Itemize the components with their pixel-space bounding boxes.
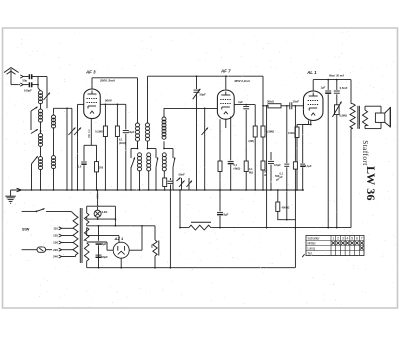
svg-text:100pF: 100pF bbox=[24, 89, 32, 93]
svg-text:0,5mF: 0,5mF bbox=[340, 86, 348, 90]
svg-text:8μF: 8μF bbox=[224, 213, 229, 217]
wire L2 bottom to bus bbox=[53, 168, 55, 191]
svg-text:500V: 500V bbox=[105, 99, 113, 103]
wire AVC column with cap bbox=[284, 105, 289, 221]
label 8uF b bbox=[224, 213, 229, 217]
wire AL1 cathode bbox=[297, 121, 312, 164]
label 0,1M bbox=[95, 130, 103, 134]
label 8uF a bbox=[102, 242, 107, 246]
svg-text:6: 6 bbox=[356, 236, 358, 240]
svg-text:50nF: 50nF bbox=[179, 173, 186, 177]
svg-text:110: 110 bbox=[53, 227, 58, 231]
svg-text:10μF: 10μF bbox=[128, 130, 134, 134]
switch S1b arrow bbox=[31, 156, 38, 191]
capacitor 1uF output top bbox=[325, 80, 331, 229]
svg-text:220: 220 bbox=[53, 248, 58, 252]
capacitor 100pF antenna series bbox=[24, 82, 38, 92]
svg-text:AF 3: AF 3 bbox=[85, 70, 96, 75]
dial lamp bbox=[94, 189, 101, 219]
band switch S1a bbox=[31, 107, 41, 134]
capacitor 8uF first bbox=[96, 226, 102, 269]
label 200V 5mA bbox=[99, 79, 115, 83]
svg-text:(2M): (2M) bbox=[249, 139, 254, 143]
svg-text:50p: 50p bbox=[23, 79, 28, 83]
mains switch bbox=[22, 208, 76, 215]
label 4000ohm bbox=[282, 205, 290, 209]
svg-text:0,1: 0,1 bbox=[280, 172, 284, 176]
svg-text:150Ω: 150Ω bbox=[288, 131, 294, 135]
coil osc L3 bbox=[162, 108, 166, 139]
label 0,1uF avc bbox=[280, 172, 284, 180]
resistor 0,1M AF7 bbox=[244, 161, 248, 191]
svg-text:Mittel: Mittel bbox=[308, 241, 316, 245]
svg-text:200: 200 bbox=[99, 167, 104, 170]
label 0,3A bbox=[96, 194, 100, 200]
resistor AF7 cathode bbox=[218, 161, 222, 191]
svg-text:1μF: 1μF bbox=[238, 100, 243, 104]
table pointer tick bbox=[302, 254, 304, 257]
transformer lamp winding bbox=[84, 228, 89, 241]
svg-text:StW: StW bbox=[22, 228, 30, 232]
wire antenna node bbox=[37, 77, 47, 96]
trimmer pair bbox=[179, 178, 192, 190]
label 30k bbox=[267, 99, 275, 103]
switch table bbox=[306, 236, 364, 256]
speaker bbox=[365, 106, 390, 128]
coil IF1 secondary lower bbox=[147, 153, 151, 191]
capacitor padder bbox=[168, 178, 174, 190]
label 6,3V bbox=[102, 210, 108, 214]
svg-text:7kΩ: 7kΩ bbox=[150, 244, 154, 249]
coil L1 antenna upper bbox=[39, 91, 43, 104]
svg-text:0,5μF: 0,5μF bbox=[274, 163, 281, 167]
wire HT drop right bbox=[262, 76, 264, 106]
label 0,2M bbox=[249, 139, 254, 143]
svg-text:AL 1: AL 1 bbox=[306, 70, 317, 75]
output transformer core bbox=[358, 106, 360, 129]
svg-text:0,1MΩ: 0,1MΩ bbox=[95, 130, 103, 134]
wire AZ1 bottom lead bbox=[120, 258, 122, 268]
label StW bbox=[22, 228, 30, 232]
svg-text:0,1: 0,1 bbox=[234, 163, 238, 167]
wire AF3 anode to rail bbox=[92, 78, 138, 89]
wire L1 bottom to bus bbox=[40, 169, 42, 191]
svg-text:50pF: 50pF bbox=[200, 93, 207, 97]
svg-text:Schalter: Schalter bbox=[308, 236, 321, 240]
svg-text:10nF: 10nF bbox=[293, 99, 300, 103]
coil L1b bbox=[39, 133, 43, 146]
switch S2b arrow bbox=[147, 148, 159, 191]
label 4k bbox=[119, 138, 126, 146]
wire heater top bbox=[87, 205, 117, 225]
svg-text:LW 36: LW 36 bbox=[364, 166, 378, 201]
label Staffort bbox=[361, 140, 369, 165]
svg-text:3: 3 bbox=[342, 236, 344, 240]
label 0,5M grid leak bbox=[87, 130, 91, 138]
svg-text:1,0: 1,0 bbox=[78, 166, 82, 169]
coil L1 lower bbox=[39, 109, 43, 122]
wire AZ1 anode to HV winding bbox=[87, 242, 114, 250]
resistor AL1 grid leak upper bbox=[261, 106, 265, 161]
wire L1b gap bbox=[40, 146, 42, 157]
label 50pF bbox=[200, 93, 207, 97]
label 50ohm bbox=[264, 171, 267, 178]
wire L1 to L1b bbox=[40, 121, 42, 133]
wire AL1 anode bbox=[312, 80, 314, 91]
wire rail0 drop to IF coil A bbox=[137, 78, 139, 123]
label 150ohm bbox=[288, 131, 294, 135]
wire screen node bbox=[100, 103, 126, 105]
tuning gang C1 arrow bbox=[68, 108, 75, 191]
capacitor 8uF second bbox=[96, 255, 109, 259]
coil L1c bbox=[39, 157, 43, 170]
coil IF1 secondary bbox=[146, 123, 150, 153]
resistor AL1 cathode bbox=[295, 127, 299, 191]
switch S2c arrow bbox=[163, 148, 175, 191]
svg-text:4: 4 bbox=[347, 236, 349, 240]
wire AF7 screen node bbox=[234, 104, 255, 106]
capacitor AL1 cathode bypass bbox=[300, 164, 305, 191]
resistor 4000ohm bbox=[276, 189, 296, 220]
wire AF7 cathode drop bbox=[219, 119, 221, 161]
label 0,5uF bbox=[340, 86, 348, 90]
svg-text:6,3Ω: 6,3Ω bbox=[102, 210, 108, 214]
svg-text:125: 125 bbox=[53, 234, 58, 238]
label 50nF bbox=[177, 173, 186, 181]
svg-text:AF 7: AF 7 bbox=[220, 68, 231, 73]
capacitor coupling 0,5uF bbox=[268, 152, 274, 191]
wire bottom return bbox=[87, 262, 296, 268]
svg-text:0,5 MΩ: 0,5 MΩ bbox=[87, 130, 91, 138]
antenna socket arrows bbox=[20, 75, 28, 86]
label 1uF AF7 bbox=[238, 100, 243, 104]
resistor cathode AF3 1k bbox=[95, 145, 104, 191]
label max current bbox=[329, 73, 344, 77]
svg-text:1μF: 1μF bbox=[321, 85, 326, 89]
label 0,1M lower bbox=[249, 168, 253, 175]
heater loop wires bbox=[87, 224, 155, 250]
tube AZ1 bbox=[113, 236, 129, 258]
wire L2 mid bbox=[53, 127, 55, 155]
label 10nF AL1 bbox=[293, 99, 300, 103]
main HT rail bbox=[150, 75, 263, 77]
potentiometer tone bbox=[332, 94, 341, 228]
output transformer secondary bbox=[362, 106, 367, 128]
resistor 50ohm bbox=[261, 161, 265, 191]
label 10nF bbox=[128, 130, 134, 134]
wire IF link vertical bbox=[66, 108, 68, 191]
svg-text:4000Ω: 4000Ω bbox=[282, 205, 290, 209]
svg-text:5: 5 bbox=[351, 236, 353, 240]
tuning gang C2 arrow bbox=[74, 104, 81, 190]
svg-text:0,1: 0,1 bbox=[249, 168, 253, 171]
transformer core bbox=[80, 208, 82, 263]
svg-text:0,3MΩ: 0,3MΩ bbox=[266, 130, 275, 134]
coil L2 secondary upper bbox=[52, 108, 56, 128]
capacitor cathode bypass AF3 bbox=[78, 145, 87, 191]
wire B+ riser bbox=[266, 105, 268, 228]
capacitor screen bypass bbox=[123, 104, 129, 191]
resistor anode load AF7 bbox=[253, 105, 257, 191]
svg-text:7: 7 bbox=[361, 236, 363, 240]
capacitor grid AF7 50pF bbox=[193, 76, 201, 191]
ground symbol bbox=[5, 190, 15, 203]
wire AF3 cathode drop bbox=[84, 119, 97, 146]
capacitor grid AL1 10nF bbox=[290, 102, 304, 109]
svg-text:1: 1 bbox=[332, 236, 334, 240]
wire rail to IF coil B bbox=[148, 76, 151, 123]
capacitor 8uF third bbox=[217, 189, 223, 228]
switch S2a arrow bbox=[130, 148, 138, 191]
label 1uF bbox=[321, 85, 326, 89]
resistor osc 1k bbox=[163, 178, 167, 191]
ground bus bbox=[11, 188, 304, 192]
svg-text:Ω: Ω bbox=[264, 174, 266, 177]
label 0,3M bbox=[266, 130, 275, 134]
resistor divider 4k bbox=[115, 104, 119, 191]
wire AF7 anode bbox=[225, 76, 227, 90]
tube AF7 bbox=[217, 68, 234, 119]
trimmer arrow antenna bbox=[44, 93, 51, 101]
resistor bleeder horizontal bbox=[179, 189, 351, 230]
wire osc top bbox=[164, 107, 217, 109]
svg-text:8μF: 8μF bbox=[102, 242, 107, 246]
resistor coupling 30k bbox=[263, 104, 290, 108]
label 500pF bbox=[274, 163, 281, 182]
transformer heater winding bbox=[84, 213, 89, 224]
wire osc mid bbox=[163, 141, 165, 148]
svg-text:Staffort: Staffort bbox=[361, 140, 369, 165]
coil IF1 primary lower bbox=[138, 141, 142, 191]
svg-text:2: 2 bbox=[337, 236, 339, 240]
svg-text:Tel.: Tel. bbox=[308, 251, 313, 255]
label choke bbox=[150, 244, 154, 249]
speaker field winding bbox=[350, 80, 355, 228]
svg-text:50μF: 50μF bbox=[102, 255, 109, 259]
antenna bbox=[4, 68, 20, 85]
svg-text:μF: μF bbox=[280, 175, 284, 179]
mains fuse bbox=[22, 247, 52, 252]
svg-text:0,1: 0,1 bbox=[119, 138, 123, 142]
svg-text:MΩ: MΩ bbox=[249, 171, 253, 174]
capacitor AF7 screen 1uF bbox=[243, 105, 249, 161]
wire L2 top rail bbox=[54, 107, 72, 109]
label LW 36 bbox=[364, 166, 378, 201]
label 500V bbox=[105, 99, 113, 103]
transformer HV winding bbox=[84, 243, 89, 262]
transformer primary winding bbox=[73, 216, 78, 257]
wire grid leak column bbox=[293, 105, 297, 268]
capacitor AF7 cathode bypass bbox=[226, 117, 234, 191]
capacitor 50pF antenna series bbox=[23, 74, 39, 82]
svg-text:Lang: Lang bbox=[308, 246, 316, 250]
svg-text:0,1μF: 0,1μF bbox=[305, 164, 312, 168]
coil osc L3 lower bbox=[162, 153, 166, 178]
svg-text:30kΩ: 30kΩ bbox=[267, 99, 275, 103]
wire AF3 grid bbox=[78, 103, 84, 105]
svg-text:AZ 1: AZ 1 bbox=[114, 236, 124, 241]
svg-text:Max! 30 mA: Max! 30 mA bbox=[329, 73, 344, 77]
svg-text:240: 240 bbox=[53, 255, 58, 259]
svg-text:0,3MΩ: 0,3MΩ bbox=[339, 113, 347, 117]
rail AL1 top bbox=[313, 79, 351, 81]
label 50nF AF7 bbox=[234, 163, 241, 171]
coil L2 lower bbox=[52, 156, 56, 169]
oscillator tuning arrow bbox=[202, 108, 209, 191]
capacitor 0,5uF bbox=[334, 80, 340, 94]
wire B+ vertical bbox=[170, 189, 172, 268]
label 465V 0,2mA bbox=[233, 79, 250, 83]
wire trimmer to coil2 top bbox=[46, 95, 48, 108]
tube AL1 bbox=[303, 70, 323, 121]
svg-text:465V 0,2mA: 465V 0,2mA bbox=[233, 79, 250, 83]
wire L1 mid bbox=[40, 103, 42, 109]
label 0,1uF AL1 bbox=[305, 164, 312, 168]
tube AF3 bbox=[84, 70, 101, 119]
coil IF1 primary bbox=[136, 123, 140, 149]
filter choke bbox=[153, 226, 159, 269]
label 0,3M pot bbox=[339, 113, 347, 117]
svg-text:(4kΩ): (4kΩ) bbox=[234, 167, 241, 171]
voltage taps bbox=[53, 227, 73, 259]
resistor screen 0.1M bbox=[103, 104, 107, 191]
svg-text:(4kΩ): (4kΩ) bbox=[119, 141, 126, 145]
